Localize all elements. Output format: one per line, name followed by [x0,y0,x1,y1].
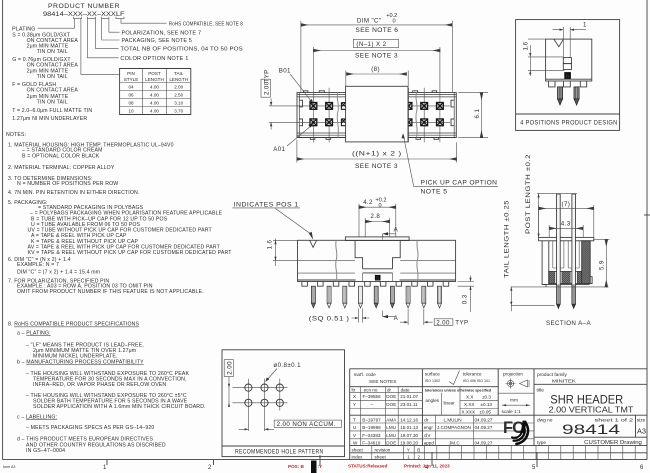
svg-text:STYLE: STYLE [124,77,139,82]
zone tick 5 [536,452,538,467]
svg-text:X: X [353,394,356,399]
section body bottom step [542,284,546,287]
housing body outline [297,93,456,138]
svg-text:ISO 406 ISO 101: ISO 406 ISO 101 [463,379,490,383]
svg-text:(SQ 0.51 ): (SQ 0.51 ) [309,315,350,322]
svg-text:PIN: PIN [127,71,135,76]
svg-text:A: A [394,227,399,234]
svg-text:TYP: TYP [264,69,271,82]
svg-text:appd: appd [424,441,435,446]
svg-text:LMU: LMU [386,425,396,430]
svg-text:B = OPTIONAL COLOR BLACK: B = OPTIONAL COLOR BLACK [22,153,100,159]
svg-text:TAIL LENGTH ±0.25: TAIL LENGTH ±0.25 [503,200,510,278]
border bottom [3,459,647,461]
svg-text:Y: Y [407,448,410,453]
A01 leader [287,125,312,146]
svg-text:((N+1) x 2 ): ((N+1) x 2 ) [352,151,402,158]
svg-text:ON CONTACT AREA: ON CONTACT AREA [27,88,79,94]
svg-text:projection: projection [503,372,523,377]
svg-text:SEE NOTE 6: SEE NOTE 6 [355,27,398,34]
dr row [422,423,534,439]
detail V notch [554,39,564,47]
svg-text:RECOMMENDED HOLE PATTERN: RECOMMENDED HOLE PATTERN [235,448,324,455]
svg-text:98414: 98414 [562,422,621,437]
branch to polarization [109,19,120,33]
0.3 standoff dim [458,282,474,287]
PIN STYLE TABLE [120,69,191,115]
tail length dim line [510,287,512,311]
detail pin 2 [574,87,579,105]
svg-text:0: 0 [379,203,382,209]
svg-text:1: 1 [407,455,410,460]
svg-text:Y: Y [353,402,356,407]
svg-text:INFRA–RED, OR VAPOR PHASE: INFRA–RED, OR VAPOR PHASE OR REFLOW OVEN [33,382,166,388]
zone tick 3 [319,455,321,466]
svg-text:Printed: Jun 11, 2023: Printed: Jun 11, 2023 [404,464,450,469]
front body outline [298,240,456,281]
2.00 boxed rotated label [261,79,270,97]
svg-text:TIN ON TAIL: TIN ON TAIL [37,74,68,80]
detail interior seam lines [546,57,565,70]
svg-text:4.2: 4.2 [363,199,373,206]
6.1 dimension [458,93,488,138]
svg-text:scale 1:1: scale 1:1 [502,409,522,415]
front feet [302,282,449,287]
cap lower verticals [363,273,393,282]
right break line [416,93,417,138]
svg-text:linear: linear [444,400,456,405]
svg-text:dr: dr [424,417,429,422]
svg-text:surface: surface [425,372,441,377]
pin slots in hatch band [555,272,562,284]
svg-text:(8): (8) [371,66,380,73]
svg-text:5.9: 5.9 [598,260,605,270]
border left [2,0,4,460]
svg-text:dwg no: dwg no [537,417,553,423]
svg-text:b – MANUFACTURING PROCESS: b – MANUFACTURING PROCESS COMPATIBILITY [17,360,144,366]
svg-text:W: W [353,441,358,446]
svg-text:X.XX: X.XX [464,402,474,407]
svg-text:OMIT FROM PRODUCT NUMBER I: OMIT FROM PRODUCT NUMBER IF THIS FEATURE… [17,289,204,295]
column lines [422,369,534,446]
PRODUCT NUMBER TREE [12,3,243,74]
svg-text:4.00: 4.00 [150,93,159,98]
svg-text:ON CONTACT AREA: ON CONTACT AREA [27,62,79,68]
svg-text:B01: B01 [279,67,291,74]
svg-text:X.X: X.X [466,394,473,399]
svg-text:TAIL: TAIL [174,71,184,76]
svg-text:a – PLATING:: a – PLATING: [17,330,51,336]
svg-text:2.00: 2.00 [436,319,450,326]
4.3 dimension line [549,227,583,229]
svg-text:tolerance: tolerance [463,372,482,377]
top view pins [310,103,443,126]
svg-text:F–34619: F–34619 [362,441,381,446]
svg-text:(N–1) X 2: (N–1) X 2 [356,41,386,48]
svg-text:±0.05: ±0.05 [480,410,492,415]
svg-text:2: 2 [418,455,421,460]
B01 leader [290,74,311,101]
zone tick 4 [431,452,433,466]
zone tick 1 [106,460,108,465]
SQ 0.51 extension lines [359,309,363,323]
svg-text:AMA: AMA [386,417,397,422]
hole row center lines [233,388,288,403]
svg-text:±0.3: ±0.3 [482,394,491,399]
front interior seam lines [298,260,456,273]
cap region white cover [356,241,400,281]
2.00 vertical boxed label [224,360,233,377]
branch to pin style table [81,19,120,75]
svg-text:L.MULIN: L.MULIN [444,417,462,422]
main horizontal lines [350,415,647,453]
svg-text:±0.13: ±0.13 [481,402,493,407]
svg-text:JM.C: JM.C [449,441,460,446]
svg-text:F–39556: F–39556 [363,394,382,399]
hole diameter leader [267,369,278,381]
svg-text:d – THIS PRODUCT MEETS EU: d – THIS PRODUCT MEETS EUROPEAN DIRECTIV… [17,436,153,442]
svg-text:SEE NOTE 3: SEE NOTE 3 [355,53,398,60]
detail B pin marker [564,72,571,79]
front B pin marker [375,275,381,281]
svg-text:LENGTH: LENGTH [169,77,188,82]
(8) extension lines [346,71,408,87]
svg-text:c – LABELLING:: c – LABELLING: [17,414,57,420]
front body bottom band [298,279,456,281]
svg-text:0: 0 [393,19,396,25]
svg-text:04.09.27: 04.09.27 [475,425,493,430]
dim C dimension line [301,24,452,26]
svg-text:KV = TAPE & REEL WITHOUT: KV = TAPE & REEL WITHOUT PICK UP CAP FOR… [28,250,233,256]
svg-text:DIM "C": DIM "C" [357,17,382,24]
svg-text:2.00: 2.00 [174,85,183,90]
detail housing bottom band [546,78,592,80]
svg-text:2. MATERIAL TERMINAL: COPPER: 2. MATERIAL TERMINAL: COPPER ALLOY [8,165,115,171]
cap neck outline [355,241,400,269]
svg-text:COLOR OPTION NOTE 1: COLOR OPTION NOTE 1 [120,56,188,62]
svg-text:IN GS–47–0004: IN GS–47–0004 [26,448,65,454]
svg-text:LENGTH: LENGTH [145,77,164,82]
bottom ruler cells [437,446,635,460]
svg-text:(7): (7) [562,201,571,208]
svg-text::Y: :Y [318,464,323,469]
svg-text:T = 2.0–6.0μm FULL MATTE: T = 2.0–6.0μm FULL MATTE TIN [12,108,92,114]
border right [646,0,648,460]
svg-text:2.00 VERTICAL TMT: 2.00 VERTICAL TMT [549,404,635,414]
black redaction bar [311,461,317,473]
svg-text:POS: B: POS: B [288,464,305,469]
front pins row [311,286,441,308]
svg-text:19.07.30: 19.07.30 [400,433,418,438]
detail feet [549,81,587,87]
svg-text:23.01.11: 23.01.11 [400,402,418,407]
2.00 vertical dim line [228,377,230,408]
svg-text:2.00: 2.00 [226,361,233,375]
svg-text:DOE: DOE [386,394,396,399]
(N-1)X2 dimension line [313,50,440,52]
projection symbol circle [506,379,530,389]
svg-text:LMU: LMU [386,433,396,438]
hole pattern box [222,350,345,457]
svg-text:– MEETS PACKAGING SPECS AS: – MEETS PACKAGING SPECS AS PER GS–14–920 [26,425,154,431]
svg-text:06: 06 [128,93,134,98]
svg-text:N = NUMBER OF POSITIONS P: N = NUMBER OF POSITIONS PER ROW [17,181,118,187]
2.00 TYP pitch dim [408,309,424,325]
svg-text:4 POSITIONS PRODUCT DESIGN: 4 POSITIONS PRODUCT DESIGN [520,119,617,126]
cap top plate [345,237,409,241]
section hatched right wall [582,241,591,284]
svg-text:08: 08 [128,101,134,106]
branch to packaging [102,19,120,40]
svg-text:NOTES:: NOTES: [6,132,26,138]
detail housing body [546,39,592,81]
branch to plating [38,19,75,29]
revision row X [350,392,423,394]
svg-text:2.50: 2.50 [174,93,183,98]
svg-text:B: B [417,448,420,453]
section hatched bottom band [549,272,589,284]
top edge bumps [304,91,437,93]
detail 1 dim verticals [563,27,570,58]
svg-text:CUSTOMER Drawing: CUSTOMER Drawing [584,440,642,446]
section pin pockets [553,241,579,268]
svg-text:8. RoHS COMPATIBLE PRODUCT: 8. RoHS COMPATIBLE PRODUCT SPECIFICATION… [8,322,140,328]
title block outline [350,369,647,460]
svg-text:product family: product family [537,372,567,378]
svg-text:6.1: 6.1 [474,109,481,119]
svg-text:DOE: DOE [386,441,396,446]
section right step [549,277,592,285]
branch to color option [88,19,119,58]
svg-text:1.6: 1.6 [267,240,274,250]
branch to RoHS [121,19,167,24]
(N-1) X 2 box [353,39,398,47]
hole column center lines [248,379,279,431]
2.00 non accum dim line [239,428,275,430]
svg-text:form A3: form A3 [3,465,15,469]
detail box frame [516,20,620,131]
svg-text:mm: mm [510,399,518,404]
svg-text:RoHS COMPATIBLE, SEE NOTE 8: RoHS COMPATIBLE, SEE NOTE 8 [169,21,243,27]
svg-text:U: U [353,425,356,430]
svg-text:A3: A3 [637,427,646,436]
dim C extension lines [301,21,452,92]
svg-text:04: 04 [128,85,134,90]
section flange [539,237,594,240]
svg-text:3.10: 3.10 [174,101,183,106]
2.8 extension lines [365,218,389,237]
svg-text:SOLDER APPLICATION WITH A: SOLDER APPLICATION WITH A 1.6mm MIN THIC… [33,404,206,410]
FCI logo [503,419,528,444]
detail pocket boxes [563,58,571,64]
section pin 1 with tail [557,194,561,309]
svg-text:2.8: 2.8 [370,213,380,220]
svg-text:tolerances unless otherwise sp: tolerances unless otherwise specified [425,389,492,393]
svg-text:date: date [401,388,410,393]
4.2 extension lines [359,204,396,237]
svg-text:21.01.07: 21.01.07 [400,394,418,399]
svg-text:4.00: 4.00 [150,109,159,114]
svg-text:title: title [537,387,545,393]
1.6 extension line [273,240,298,260]
svg-text:SECTION A–A: SECTION A–A [546,320,591,327]
(7) extension lines [539,205,594,237]
svg-text:PRODUCT NUMBER: PRODUCT NUMBER [48,3,120,10]
svg-text:04.09.27: 04.09.27 [475,417,493,422]
svg-text:04.09.27: 04.09.27 [475,441,493,446]
svg-text:ecn no: ecn no [364,388,378,393]
PLATING OPTIONS TEXT [12,33,92,122]
svg-text:size: size [637,418,646,424]
left break line [337,93,338,138]
zone tick 2 [213,460,215,465]
5.9 dimension [594,239,610,241]
detail pin 1 [558,87,563,105]
svg-text:1.6: 1.6 [522,41,529,50]
svg-text:B–19797: B–19797 [362,417,381,422]
svg-text:10: 10 [128,109,134,114]
svg-text:index: index [352,455,364,460]
svg-text:F–34383: F–34383 [362,433,381,438]
4.2 dimension line [359,206,396,208]
front V notch [310,240,317,247]
section body left wall [542,241,549,285]
svg-text:4.3: 4.3 [561,220,571,227]
tree bars under digit groups [74,17,125,19]
hole pattern caption divider [222,445,345,447]
svg-text:14.12.16: 14.12.16 [400,417,418,422]
svg-text:98414–XXX–XX–XXXLF: 98414–XXX–XX–XXXLF [43,11,125,18]
right border tick [644,214,650,216]
svg-text:19.08.20: 19.08.20 [400,441,418,446]
end wall tabs [299,100,454,126]
projection cone symbol [520,380,530,387]
svg-text:angles: angles [425,398,439,403]
front break lines [336,240,337,281]
svg-text:TYP: TYP [455,319,468,326]
svg-text:sheet: sheet [352,448,364,453]
svg-text:PLATING: PLATING [12,26,35,32]
(7) dimension line [539,207,594,209]
svg-text:PACKAGING, SEE NOTE 5: PACKAGING, SEE NOTE 5 [122,38,193,44]
holes [245,384,284,406]
svg-text:ISO 1302: ISO 1302 [425,379,440,383]
svg-text:engr: engr [424,425,434,430]
tail length extension lines [510,287,608,306]
svg-text:X.XXX: X.XXX [462,410,476,415]
pin column center lines [313,47,440,142]
svg-text:A01: A01 [273,146,285,153]
svg-text:EXAMPLE: N = 7: EXAMPLE: N = 7 [17,262,59,268]
svg-text:dr: dr [387,388,392,393]
svg-text:ltr: ltr [352,388,356,393]
svg-text:1.27μm NI MIN UNDERLAYER: 1.27μm NI MIN UNDERLAYER [12,116,87,122]
svg-text:B: B [566,74,570,80]
svg-text:ø0.8±0.1: ø0.8±0.1 [273,362,301,369]
svg-text:3.70: 3.70 [174,109,183,114]
svg-text:POLARIZATION, SEE NOTE 7: POLARIZATION, SEE NOTE 7 [122,30,202,36]
section pin 2 with tail [572,194,576,309]
svg-text:T: T [353,417,356,422]
svg-text:STATUS:Released: STATUS:Released [348,464,388,469]
post top extension line [537,193,577,195]
svg-text:POST LENGTH ±0.2: POST LENGTH ±0.2 [525,154,532,234]
branch to total positions [96,19,119,49]
T U V W revisions [350,423,423,439]
row A center line [269,121,450,123]
detail box divider [516,113,620,115]
row B center line [269,105,450,107]
svg-text:B–19988: B–19988 [362,425,381,430]
svg-text:type: type [537,440,546,446]
(8) dimension line [347,73,407,75]
svg-text:2.00 NON ACCUM.: 2.00 NON ACCUM. [277,421,336,428]
svg-text:chr: chr [424,433,431,438]
2.00 non accum boxed label [274,420,341,427]
svg-text:revision: revision [375,448,391,453]
mm band [498,393,534,405]
svg-text:TOTAL NB OF POSITIONS, 04 TO 5: TOTAL NB OF POSITIONS, 04 TO 50 POS [120,47,243,53]
svg-text:MINITEK: MINITEK [552,379,577,385]
NOTES [6,132,232,454]
svg-text:–: – [371,402,374,407]
svg-text:NOTE 5: NOTE 5 [421,189,448,196]
svg-text:SEE NOTES: SEE NOTES [369,379,396,385]
2.8 dimension line [365,221,389,223]
svg-text:DIM "C" = (7 x 2) + 1.4: DIM "C" = (7 x 2) + 1.4 = 15.4 mm [17,269,100,275]
svg-text:4.00: 4.00 [150,101,159,106]
sheet index table [372,446,425,460]
svg-text:J.COMPAGNON: J.COMPAGNON [437,425,471,430]
svg-text:4. 7N MIN. PIN RETENTION I: 4. 7N MIN. PIN RETENTION IN EITHER DIREC… [8,190,140,196]
svg-text:0.3: 0.3 [462,294,469,304]
svg-text:PICK UP CAP OPTION: PICK UP CAP OPTION [421,179,498,186]
svg-text:TIN ON TAIL: TIN ON TAIL [37,99,68,105]
svg-text:mat'l. code: mat'l. code [354,372,377,377]
svg-text:POST: POST [148,71,161,76]
cap rail band [363,269,393,273]
pick up cap leader [403,136,498,187]
svg-text:B: B [376,276,380,282]
partially hidden pin column at cap left edge [341,103,345,126]
svg-text:4.00: 4.00 [150,85,159,90]
pick up cap rectangle [346,86,408,142]
svg-text:SEE NOTE 3: SEE NOTE 3 [355,163,398,170]
svg-text:2.00: 2.00 [263,81,270,95]
svg-text:TIN ON TAIL: TIN ON TAIL [37,49,68,55]
svg-text:sheet: sheet [375,455,387,460]
indicates pos 1 leader [275,209,311,235]
bottom edge bumps [310,138,438,140]
svg-text:1: 1 [583,22,587,29]
((N+1)x2) extension lines [297,140,457,163]
surface symbol [449,371,460,385]
((N+1) x 2) dimension line [297,158,457,160]
post length dim line [538,194,540,238]
2.00 pitch dim arrows [270,99,272,130]
svg-text:DOE: DOE [386,402,396,407]
svg-text:A: A [394,315,399,322]
svg-text:15.01.13: 15.01.13 [400,425,418,430]
4.3 extension lines [549,225,583,237]
svg-text:INDICATES POS 1: INDICATES POS 1 [234,201,299,208]
